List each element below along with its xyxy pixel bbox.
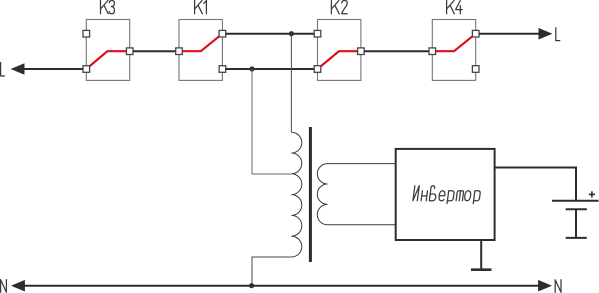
net label N (right): [555, 280, 561, 293]
wire bottom junction to transformer tap: [252, 69, 291, 174]
junction dot on top wire: [289, 31, 294, 36]
battery plus label: [589, 191, 595, 197]
junction dot on bottom wire: [249, 66, 254, 71]
relay K4: [429, 1, 479, 81]
inverter U1 box: [396, 149, 495, 240]
inverter U1 label Инвертор: [413, 186, 482, 204]
battery GB1: [552, 201, 599, 238]
wire inverter to ground: [480, 240, 482, 270]
wire secondary bottom to inverter: [328, 224, 396, 226]
wire transformer primary bottom to N: [252, 257, 291, 286]
net label L (right): [556, 28, 560, 41]
wire K4 to L right with arrowhead: [479, 28, 552, 40]
transformer T1 core: [309, 127, 312, 262]
wire N with arrowheads: [11, 280, 552, 292]
wire top junction to transformer primary: [290, 34, 292, 133]
junction dot on N wire: [249, 283, 254, 288]
relay K2: [314, 1, 364, 81]
relay K3: [83, 1, 133, 81]
transformer T1 secondary winding: [317, 164, 327, 225]
relay K1: [176, 1, 226, 81]
wire K3 to K1: [133, 50, 176, 52]
ground: [471, 268, 492, 271]
net label N (left): [1, 280, 7, 293]
wire secondary top to inverter: [328, 163, 396, 165]
transformer T1 primary winding: [291, 132, 301, 257]
wire L left with arrowhead: [11, 63, 83, 75]
wire K1 to K2 top: [226, 33, 315, 35]
wire K2 to K4: [364, 50, 429, 52]
net label L (left): [1, 63, 5, 77]
wire inverter to battery: [495, 168, 576, 201]
wire K1 to K2 bottom: [226, 68, 315, 70]
